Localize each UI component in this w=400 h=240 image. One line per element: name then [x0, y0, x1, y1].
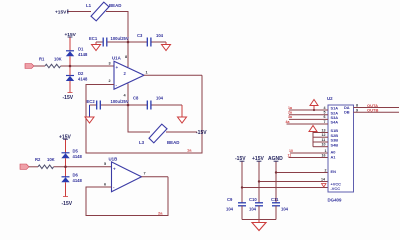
svg-text:+: +	[113, 166, 116, 171]
svg-text:10K: 10K	[47, 157, 55, 162]
svg-text:11: 11	[322, 138, 326, 142]
power arrow (B group)	[309, 126, 317, 132]
svg-text:1a: 1a	[187, 148, 192, 153]
capacitor C11	[272, 202, 280, 204]
svg-text:104: 104	[156, 33, 164, 38]
svg-text:4148: 4148	[73, 178, 83, 183]
wire	[29, 166, 38, 168]
svg-text:EC1: EC1	[89, 36, 98, 41]
wire	[65, 158, 67, 177]
ground	[181, 105, 183, 117]
wire	[106, 12, 128, 68]
svg-text:C11: C11	[271, 197, 279, 202]
svg-text:EC2: EC2	[87, 99, 96, 104]
wire S2A	[289, 114, 328, 116]
wire	[258, 161, 260, 203]
svg-text:12: 12	[322, 133, 326, 137]
wire V- rail	[128, 105, 150, 132]
svg-text:7: 7	[324, 120, 326, 124]
wire	[275, 161, 277, 203]
wire +VCC	[259, 181, 328, 183]
wire	[67, 11, 91, 13]
svg-text:104: 104	[226, 206, 234, 211]
power arrow (pin 3 VEE)	[322, 184, 327, 188]
svg-text:10K: 10K	[54, 56, 62, 61]
svg-text:+15V: +15V	[55, 9, 67, 15]
svg-text:BEAD: BEAD	[167, 140, 179, 145]
wire	[241, 161, 243, 203]
svg-text:104: 104	[156, 96, 164, 101]
svg-text:2: 2	[109, 79, 111, 83]
wire S3A	[289, 118, 328, 120]
op-amp U1B	[112, 162, 142, 192]
op-amp U1A	[114, 61, 144, 89]
svg-text:C9: C9	[227, 197, 233, 202]
wire lower decoupling row	[90, 104, 97, 106]
svg-text:S4B: S4B	[331, 142, 339, 147]
svg-text:14: 14	[321, 177, 325, 181]
svg-text:100u/25V: 100u/25V	[111, 36, 129, 41]
inductor L3 (ferrite bead)	[149, 124, 167, 143]
wire output U1A	[144, 74, 202, 76]
ground	[258, 220, 260, 223]
svg-text:13: 13	[322, 128, 326, 132]
svg-text:EN: EN	[331, 169, 337, 174]
svg-text:R2: R2	[35, 157, 41, 162]
power port -15V	[63, 196, 68, 198]
svg-text:L3: L3	[139, 140, 145, 145]
port input A	[25, 64, 34, 69]
power port -15V	[68, 92, 73, 94]
svg-text:-VCC: -VCC	[331, 186, 341, 191]
capacitor C3	[146, 38, 148, 47]
svg-text:-15V: -15V	[196, 130, 207, 136]
svg-text:1: 1	[146, 71, 148, 75]
svg-text:R1: R1	[39, 56, 45, 61]
wire	[69, 37, 71, 51]
wire DB out	[354, 111, 400, 113]
wire output U1B	[142, 176, 169, 178]
wire DA out	[354, 107, 400, 109]
wire top decoupling row	[96, 41, 103, 43]
svg-text:5: 5	[104, 162, 106, 166]
svg-text:4148: 4148	[78, 77, 88, 82]
ground	[89, 105, 91, 117]
wire EN	[276, 172, 328, 174]
wire -VCC	[242, 187, 328, 189]
pin 4	[127, 84, 129, 106]
svg-text:104: 104	[249, 206, 257, 211]
svg-text:U1B: U1B	[109, 157, 118, 162]
wire	[69, 66, 71, 76]
svg-text:5: 5	[324, 111, 326, 115]
svg-text:2a: 2a	[158, 211, 163, 216]
svg-text:U2: U2	[327, 96, 333, 101]
svg-text:10: 10	[289, 149, 293, 153]
svg-text:16: 16	[322, 153, 326, 157]
svg-text:6: 6	[324, 115, 326, 119]
svg-text:-15V: -15V	[63, 95, 74, 101]
diode D5 4148	[62, 152, 70, 154]
capacitor EC2	[96, 101, 98, 110]
svg-text:1a: 1a	[288, 106, 292, 110]
svg-text:4: 4	[324, 106, 326, 110]
svg-text:4148: 4148	[78, 52, 88, 57]
svg-text:1: 1	[325, 149, 327, 153]
svg-text:10: 10	[322, 143, 326, 147]
wire	[61, 65, 114, 67]
wire	[65, 139, 67, 153]
svg-text:7: 7	[144, 172, 146, 176]
wire feedback loop U1B	[86, 177, 168, 216]
wire S3B	[313, 141, 328, 143]
svg-text:3a: 3a	[288, 115, 292, 119]
resistor R1 10K	[45, 64, 61, 68]
svg-text:3: 3	[109, 62, 111, 66]
wire A0	[290, 152, 328, 154]
svg-text:100u/25V: 100u/25V	[111, 99, 129, 104]
svg-text:2: 2	[325, 168, 327, 172]
inductor L1 (ferrite bead)	[91, 2, 109, 21]
capacitor EC1	[102, 38, 104, 47]
pin labels inside U2	[331, 105, 350, 191]
wire B bus	[312, 132, 314, 147]
capacitor C10	[255, 202, 263, 204]
ground	[165, 42, 167, 45]
svg-text:11: 11	[288, 154, 292, 158]
power arrow (S1A)	[310, 100, 318, 106]
svg-text:6: 6	[104, 182, 106, 186]
wire	[54, 166, 112, 168]
wire A1	[289, 157, 329, 159]
svg-text:C8: C8	[133, 96, 139, 101]
wire S2B	[313, 136, 328, 138]
svg-text:2a: 2a	[288, 111, 292, 115]
capacitor C8	[146, 101, 148, 110]
svg-text:8: 8	[125, 55, 127, 59]
wire feedback loop U1A	[86, 75, 202, 153]
capacitor C9	[238, 202, 246, 204]
wire	[65, 182, 67, 196]
svg-text:4148: 4148	[73, 154, 83, 159]
wire S4A	[287, 123, 329, 125]
svg-text:DB: DB	[344, 110, 350, 115]
svg-text:D5: D5	[73, 149, 79, 154]
diode D1 4148	[66, 50, 74, 52]
svg-text:-15V: -15V	[62, 201, 73, 207]
IC U2 DG409	[328, 105, 354, 192]
svg-text:L1: L1	[86, 3, 92, 8]
wire	[69, 56, 71, 66]
port input B	[20, 164, 29, 169]
resistor R2 10K	[38, 165, 54, 169]
svg-text:+: +	[116, 65, 119, 70]
svg-text:BEAD: BEAD	[109, 3, 121, 8]
wire	[166, 131, 197, 133]
wire	[241, 206, 243, 220]
svg-text:C3: C3	[137, 33, 143, 38]
svg-text:A1: A1	[331, 154, 337, 159]
svg-text:OUTB: OUTB	[367, 108, 378, 113]
svg-text:D1: D1	[78, 47, 84, 52]
svg-text:4a: 4a	[286, 120, 290, 124]
svg-text:D2: D2	[78, 71, 84, 76]
wire	[34, 65, 45, 67]
svg-text:S4A: S4A	[331, 120, 339, 125]
wire S1A	[289, 109, 328, 111]
diode D6 4148	[62, 176, 70, 178]
svg-text:C10: C10	[249, 197, 257, 202]
wire S1B	[313, 132, 328, 134]
svg-text:D6: D6	[73, 172, 79, 177]
svg-text:DG409: DG409	[328, 198, 342, 203]
svg-text:104: 104	[281, 206, 289, 211]
ground	[95, 42, 97, 45]
svg-text:U1A: U1A	[112, 56, 122, 61]
wire S4B	[313, 146, 328, 148]
diode D2 4148	[66, 75, 74, 77]
